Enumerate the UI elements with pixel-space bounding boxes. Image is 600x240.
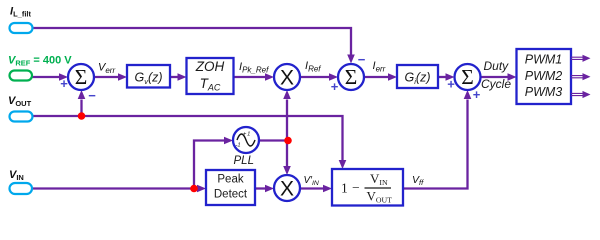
block Gi(z) <box>397 65 438 88</box>
svg-text:Vff: Vff <box>412 174 424 187</box>
output arrow PWM1 <box>571 55 591 62</box>
svg-text:X: X <box>280 67 294 90</box>
svg-text:IPk_Ref: IPk_Ref <box>239 61 269 75</box>
svg-text:PLL: PLL <box>234 155 254 167</box>
svg-text:PWM2: PWM2 <box>525 69 563 83</box>
svg-text:V′IN: V′IN <box>304 175 319 187</box>
svg-text:Σ: Σ <box>461 65 474 89</box>
svg-text:VOUT: VOUT <box>8 95 32 108</box>
multiplier 2 <box>274 175 300 201</box>
svg-text:Ierr: Ierr <box>373 60 386 74</box>
wire summer 3 to PWM block <box>481 73 517 81</box>
svg-text:VIN: VIN <box>9 169 24 182</box>
wire VIN rail to Peak Detect <box>32 185 206 193</box>
svg-text:X: X <box>280 178 294 201</box>
terminal VOUT <box>10 112 33 122</box>
wire multiplier 1 to summer 2 <box>300 73 338 81</box>
terminal VREF <box>10 71 33 81</box>
svg-text:+: + <box>60 76 68 91</box>
wire Gv(z) to ZOH <box>170 73 187 81</box>
summer 3 <box>455 64 481 90</box>
svg-text:Σ: Σ <box>75 65 88 89</box>
block feedforward 1 - VIN/VOUT <box>332 169 403 206</box>
svg-text:1: 1 <box>341 181 348 196</box>
block Gv(z) <box>127 65 170 88</box>
PLL oscillator <box>233 127 259 153</box>
svg-text:IRef: IRef <box>305 60 321 74</box>
svg-text:IL_filt: IL_filt <box>10 6 31 19</box>
svg-text:PWM3: PWM3 <box>525 85 563 99</box>
svg-text:Detect: Detect <box>214 189 248 201</box>
terminal I_L_filt <box>10 23 33 33</box>
junction VOUT to summer 1 <box>78 112 86 120</box>
wire summer 2 to Gi(z) <box>364 73 397 81</box>
svg-text:+1: +1 <box>243 132 251 138</box>
wire Gi(z) to summer 3 <box>438 73 455 81</box>
svg-text:Cycle: Cycle <box>481 77 511 91</box>
wire VOUT feedback up to summer 1 <box>78 90 86 116</box>
block PWM <box>517 49 572 104</box>
block ZOH T_AC <box>187 58 234 94</box>
svg-text:−: − <box>358 52 366 67</box>
summer 1 <box>68 64 94 90</box>
wire Vff feedback up to summer 3 <box>403 90 471 189</box>
svg-text:−: − <box>88 88 96 103</box>
multiplier 1 <box>274 64 300 90</box>
wire PLL output to junction <box>259 139 288 141</box>
svg-text:PWM1: PWM1 <box>525 53 563 67</box>
wire VREF to summer 1 <box>32 73 68 81</box>
wire VOUT rail to feedforward box <box>33 116 346 169</box>
wire ZOH to multiplier 1 <box>234 73 275 81</box>
svg-text:VREF = 400 V: VREF = 400 V <box>8 55 72 68</box>
svg-text:+: + <box>447 77 455 92</box>
output arrow PWM2 <box>571 73 591 80</box>
wire multiplier 2 to feedforward box <box>300 185 332 193</box>
svg-text:Gi(z): Gi(z) <box>405 71 431 87</box>
summer 2 <box>338 64 364 90</box>
wire Peak Detect to multiplier 2 <box>255 185 274 193</box>
junction VIN to PLL branch <box>190 185 198 193</box>
svg-text:Verr: Verr <box>98 62 115 76</box>
svg-text:−: − <box>352 180 360 195</box>
svg-text:+: + <box>473 87 481 102</box>
svg-text:Σ: Σ <box>345 65 358 89</box>
svg-text:Gv(z): Gv(z) <box>134 71 162 87</box>
terminal VIN <box>10 183 33 194</box>
svg-text:Duty: Duty <box>484 59 510 73</box>
svg-text:ZOH: ZOH <box>195 59 225 74</box>
wire summer 1 to Gv(z) <box>94 73 127 81</box>
svg-text:Peak: Peak <box>217 174 243 186</box>
svg-text:-1: -1 <box>236 142 241 148</box>
wire VIN junction up to PLL <box>194 137 233 189</box>
svg-text:+: + <box>331 79 339 94</box>
wire I_L_filt rail to summer 2 <box>33 28 355 64</box>
output arrow PWM3 <box>571 91 591 98</box>
block Peak Detect <box>206 170 255 205</box>
junction PLL output <box>284 137 292 145</box>
wire junction down to multiplier 2 <box>283 141 291 176</box>
wire junction up to multiplier 1 <box>283 90 291 141</box>
